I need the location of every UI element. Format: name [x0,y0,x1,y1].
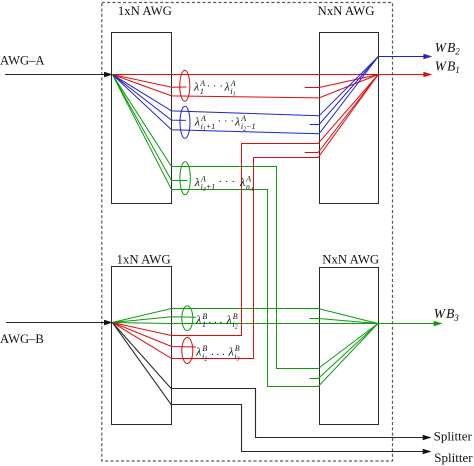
wire: black splitter branch 2 [112,323,431,455]
wire: blue band A line 2 left segment [112,75,185,121]
svg-text:1: 1 [202,320,206,329]
ellipse marker red band B [182,338,193,364]
wire: red band B line 2 right segment [305,75,379,153]
wire: red band A line 2 right segment into top NxN AWG [305,75,379,88]
AWG box: bottom-right NxN AWG [320,268,379,425]
wire: red band B line 1 via left riser to top NxN AWG [112,75,378,336]
svg-text:λ: λ [193,80,199,94]
svg-text:. . .: . . . [209,314,223,326]
svg-text:i3+1: i3+1 [201,183,216,193]
wire: AWG-A input line [5,72,113,77]
wire: green band A line 1 via right riser to bottom NxN AWG [112,75,378,369]
arrow: WB2 blue output [378,54,432,59]
ellipse marker blue band A [180,106,190,138]
svg-text:λ: λ [228,344,234,358]
wire: red band B line 3 via right riser [112,75,378,359]
svg-text:· · ·: · · · [219,176,236,188]
svg-text:λ: λ [239,175,245,189]
svg-text:Splitter: Splitter [434,428,473,443]
wire: red band A line 1 (straight through to WB1) [112,74,378,76]
ellipse marker green band A [180,162,190,195]
svg-text:AWG–B: AWG–B [0,332,44,346]
svg-text:1xN AWG: 1xN AWG [118,4,172,18]
svg-text:λ: λ [234,115,240,129]
svg-text:λ: λ [224,80,230,94]
svg-text:NxN AWG: NxN AWG [322,252,379,266]
wire: green band B line 1 [112,309,378,324]
wire: red band B line 2 left segment [112,323,196,348]
wire: green band A line 3 via left riser [112,75,378,387]
wire: AWG-B input line [6,320,113,325]
svg-text:λ: λ [195,312,201,326]
wire: green band A line 2 left segment [112,75,187,181]
svg-text:AWG–A: AWG–A [0,54,44,68]
wire: green band A line 2 right segment [310,324,378,379]
wire: green band B line 3 (straight through to WB3) [112,323,378,324]
arrow: WB1 red output [378,72,432,77]
svg-text:i2−1: i2−1 [241,122,256,132]
svg-text:· · ·: · · · [218,115,235,127]
svg-text:i1+1: i1+1 [201,122,216,132]
dashed boundary frame [102,3,393,462]
svg-text:λ: λ [194,115,200,129]
wire: blue band A line 2 right segment [310,57,379,125]
arrow: WB3 green output [378,321,443,326]
ellipse marker red band A [180,70,190,101]
svg-text:· · ·: · · · [207,80,224,92]
wire: green band B line 2 right segment [310,319,378,324]
svg-text:1: 1 [200,87,204,96]
AWG box: top-right NxN AWG [320,33,379,204]
svg-text:NxN AWG: NxN AWG [318,4,375,18]
svg-text:λ: λ [195,344,201,358]
wire: black splitter branch 1 [112,323,431,441]
wire: red band A line 3 [112,75,378,98]
svg-text:λ: λ [226,312,232,326]
wire: green band B line 2 left segment [112,317,196,323]
wire: blue band A line 3 [112,57,378,134]
svg-text:1xN AWG: 1xN AWG [117,252,171,266]
ellipse marker green band B [182,306,193,331]
svg-text:Splitter: Splitter [434,450,473,465]
wire: red band A line 2 left segment [112,75,186,88]
svg-text:λ: λ [194,175,200,189]
svg-text:. . .: . . . [211,346,225,358]
AWG box: bottom-left 1xN AWG [112,267,172,425]
AWG box: top-left 1xN AWG [112,33,172,204]
wire: blue band A line 1 [112,57,378,116]
